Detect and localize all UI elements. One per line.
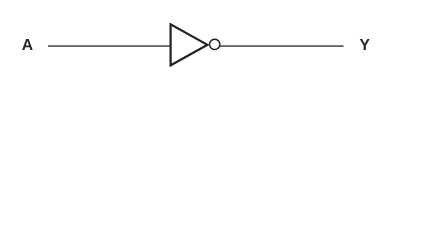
svg-text:A: A: [22, 37, 33, 54]
svg-text:Y: Y: [360, 37, 371, 54]
